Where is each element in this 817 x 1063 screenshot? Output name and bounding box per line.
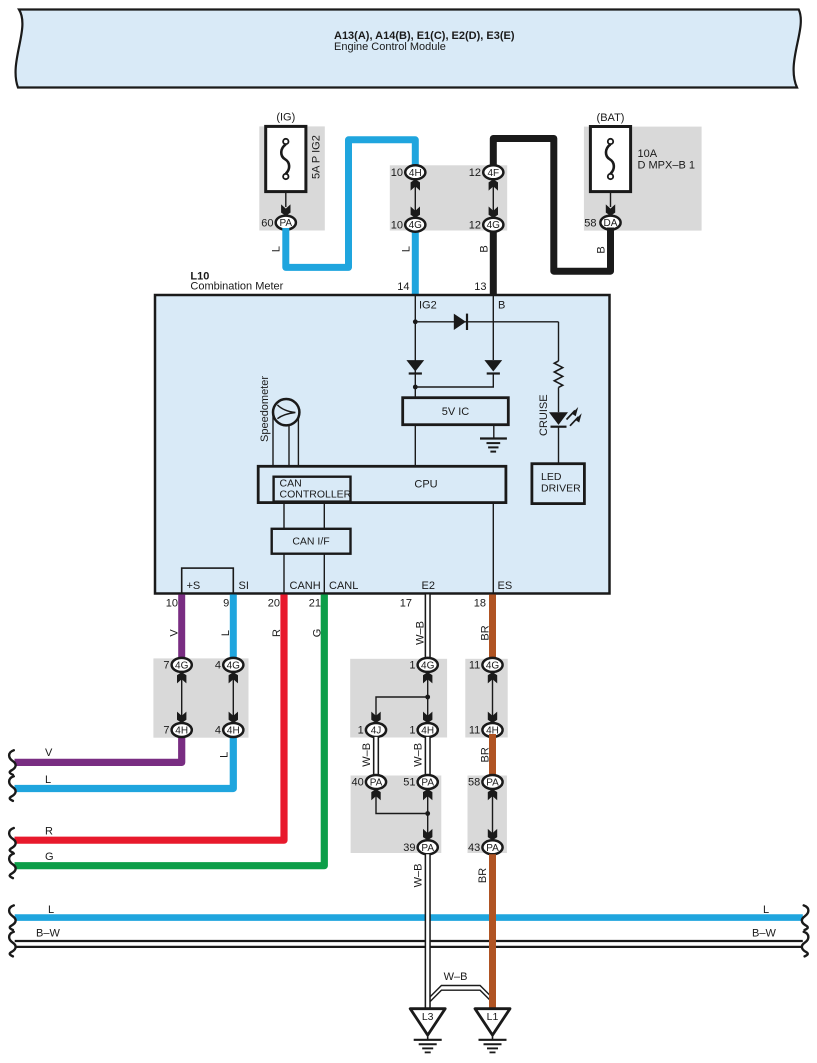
svg-text:51: 51 [403,777,415,789]
svg-text:13: 13 [474,281,486,293]
svg-text:R: R [45,826,53,838]
svg-text:CAN I/F: CAN I/F [292,536,329,548]
wire L (blue) 4H to left edge [15,734,234,789]
svg-text:PA: PA [421,778,434,789]
connector PA pin 60 [276,216,296,230]
wire CANL internal [323,554,325,593]
svg-text:4G: 4G [227,660,241,671]
wire B (black) 4F to DA58 [493,139,610,272]
IC 5V IC [403,398,509,425]
wire 5V IC to CPU [414,425,416,467]
svg-text:B: B [498,300,505,312]
LED CRUISE indicator [549,407,582,427]
connector junction 4F-4G [489,179,498,218]
svg-text:4H: 4H [409,168,422,179]
ground L3 [410,1009,445,1053]
connector arrow into DA [606,204,615,215]
connector PA pin 40 [366,775,386,789]
wire B (black) 4G to meter pin 13 [490,229,497,297]
svg-text:IG2: IG2 [419,300,437,312]
svg-text:4H: 4H [227,726,240,737]
wire L (blue) pin9 to 4G [230,595,237,662]
wire cruise column upper [558,322,560,361]
wire W-B branch to L1 [430,986,492,1003]
svg-text:DRIVER: DRIVER [541,483,581,495]
svg-text:CONTROLLER: CONTROLLER [280,489,352,501]
wire V (purple) 4H to left edge [15,734,182,762]
connector PA pin 58 [482,775,502,789]
connector 4G pin 11 [482,658,502,672]
diode D3 (B, down) [484,360,502,373]
wire B-W bus (double) [15,941,803,947]
svg-text:W–B: W–B [444,971,468,983]
svg-text:7: 7 [163,725,169,737]
connector panel 4G to 4H (ES) [465,659,507,738]
svg-text:20: 20 [268,598,280,610]
svg-text:Combination Meter: Combination Meter [190,281,283,293]
svg-text:4G: 4G [487,220,501,231]
svg-text:18: 18 [474,598,486,610]
svg-text:PA: PA [486,843,499,854]
svg-text:B–W: B–W [36,928,60,940]
wire fuse BAT to DA [610,192,612,207]
svg-text:R: R [271,629,283,637]
svg-text:L3: L3 [422,1011,434,1023]
connector PA pin 39 [418,840,438,854]
diode D1 (series, right) [454,314,467,330]
connector junction 4G-4H (ES) [488,672,497,723]
connector 4H pin 4 [223,723,243,737]
svg-text:5V IC: 5V IC [442,406,470,418]
connector 4G pin 12 [483,218,503,232]
connector panel PA group (E2) [351,776,442,854]
wires CAN CONTROLLER to CAN I/F [283,502,285,529]
svg-text:11: 11 [469,725,480,737]
resistor R1 [554,361,562,387]
wire IG2 to cruise column [415,321,558,323]
svg-text:4: 4 [215,725,221,737]
connector 4J pin 1 [366,723,386,737]
connector panel 4G to 4J/4H (E2) [350,659,447,738]
connector 4G pin 10 [405,218,425,232]
svg-text:V: V [169,629,181,637]
svg-text:Speedometer: Speedometer [259,376,271,442]
connector panel IG fuse panel [259,126,325,230]
wire break L [9,776,16,801]
svg-text:G: G [45,851,54,863]
svg-text:17: 17 [400,598,412,610]
wire resistor to LED [558,387,560,412]
IC CPU [258,466,506,502]
svg-text:4H: 4H [421,726,434,737]
wire break V [9,750,16,775]
svg-text:5A P IG2: 5A P IG2 [311,135,323,179]
wire BR 4H to PA58 [489,734,496,777]
wire CANH internal [283,554,285,593]
connector junction 4G-4H (L) [229,672,238,723]
ground (internal) [480,425,507,452]
connector 4G pin 1 [418,658,438,672]
svg-text:43: 43 [468,842,480,854]
connector junction PA58 to PA43 [488,789,497,840]
svg-text:12: 12 [469,167,481,179]
connector 4H pin 10 [405,165,425,179]
svg-text:W–B: W–B [413,743,425,767]
svg-text:W–B: W–B [415,621,427,645]
wire V (purple) pin10 to 4G [178,595,185,662]
fuse 10A D MPX-B 1 [590,127,630,192]
wire break B-W bus left [9,932,16,957]
wire W-B pin17 to 4G [425,595,431,660]
svg-text:4: 4 [215,660,221,672]
svg-text:W–B: W–B [361,743,373,767]
svg-text:1: 1 [409,725,415,737]
svg-text:L: L [220,630,232,636]
svg-text:V: V [45,747,53,759]
wire B diode to junction [415,374,493,388]
svg-text:BR: BR [480,747,492,762]
svg-text:14: 14 [397,281,409,293]
svg-text:10: 10 [166,598,178,610]
svg-text:G: G [311,629,323,638]
connector arrow into PA [281,204,290,215]
connector junction 4G-4H (V) [177,672,186,723]
svg-text:L: L [763,904,769,916]
connector PA pin 43 [482,840,502,854]
connector junction PA40/PA51 to PA39 [371,789,432,840]
svg-text:CANH: CANH [290,580,321,592]
svg-text:SI: SI [239,580,249,592]
wire L (blue) from PA60 to connector 4H [286,140,416,268]
svg-text:PA: PA [486,778,499,789]
svg-text:ES: ES [498,580,513,592]
svg-text:39: 39 [403,842,415,854]
svg-text:4G: 4G [175,660,189,671]
svg-text:60: 60 [261,217,273,229]
svg-text:DA: DA [604,218,618,229]
node Engine Control Module banner [16,10,801,88]
wire break G [9,854,16,879]
svg-text:LED: LED [541,471,562,483]
wire BR pin18 to 4G [489,595,496,662]
connector panel BAT fuse panel [584,127,702,231]
svg-text:Engine Control Module: Engine Control Module [334,41,446,53]
wire B internal [492,296,494,360]
wire W-B 4J to PA40 [373,737,379,776]
svg-text:BR: BR [477,868,489,883]
wire BR PA43 to ground L1 [489,854,496,1008]
diode D2 (IG2, down) [406,360,424,373]
node PA branch junction [425,811,430,816]
svg-text:L: L [45,774,51,786]
wires speedometer to CPU [273,412,298,466]
svg-text:(BAT): (BAT) [597,112,625,124]
wire R (red) pin20 to left edge [15,595,285,841]
svg-text:4F: 4F [487,168,499,179]
node E2 branch junction [425,695,430,700]
wire break B-W bus right [802,932,809,957]
node IG2 junction [413,319,418,324]
wire IG2 internal [414,296,416,398]
wire LED to LED DRIVER [558,427,560,464]
connector DA pin 58 [600,216,620,230]
wire G (green) pin21 to left edge [15,595,325,866]
svg-text:(IG): (IG) [276,112,295,124]
wire W-B 4H to PA51 [425,737,431,776]
svg-text:BR: BR [480,625,492,640]
IC LED DRIVER [532,464,585,504]
svg-text:B: B [479,245,491,252]
wire L (blue) 4G to meter pin 14 [412,229,419,297]
connector panel 4G/4H left pair [153,658,248,737]
connector panel PA group (ES) [468,776,507,854]
connector 4H pin 7 [172,723,192,737]
svg-text:7: 7 [163,660,169,672]
connector block +S [182,568,234,593]
svg-text:10: 10 [391,167,403,179]
IC CAN I/F [272,529,351,554]
ground L1 [475,1009,510,1053]
svg-text:58: 58 [584,217,596,229]
svg-text:12: 12 [469,219,481,231]
svg-text:PA: PA [370,778,383,789]
svg-text:58: 58 [468,777,480,789]
connector junction 4H-4G [411,179,420,218]
svg-text:4G: 4G [486,660,500,671]
svg-text:CANL: CANL [329,580,358,592]
svg-text:L: L [401,246,413,252]
IC CAN CONTROLLER [274,477,352,502]
svg-text:21: 21 [309,598,321,610]
connector 4G pin 4 [223,658,243,672]
connector junction 4G to 4J/4H [371,672,432,723]
wire break R [9,828,16,853]
svg-text:B–W: B–W [752,928,776,940]
wire ES internal [492,503,494,593]
wire fuse IG to PA [285,192,287,207]
wire W-B PA39 to ground L3 [425,854,431,1008]
combination meter L10 box [155,295,610,594]
svg-text:D MPX–B 1: D MPX–B 1 [638,160,695,172]
svg-text:11: 11 [469,660,480,672]
svg-text:B: B [596,246,608,253]
connector panel 4H/4F to 4G [390,165,507,230]
svg-text:1: 1 [409,660,415,672]
svg-text:4J: 4J [371,726,382,737]
svg-text:L: L [48,904,54,916]
svg-text:L1: L1 [487,1011,499,1023]
svg-text:W–B: W–B [413,864,425,888]
svg-text:L: L [271,246,283,252]
svg-text:CRUISE: CRUISE [538,394,550,436]
connector PA pin 51 [418,775,438,789]
wire break L bus left [9,905,16,930]
svg-text:1: 1 [358,725,364,737]
svg-text:4G: 4G [409,220,423,231]
svg-text:PA: PA [421,843,434,854]
wire L bus (blue) [15,914,803,921]
svg-text:9: 9 [223,598,229,610]
connector 4H pin 11 [482,723,502,737]
connector 4G pin 7 [172,658,192,672]
svg-text:+S: +S [187,580,201,592]
svg-text:4H: 4H [175,726,188,737]
svg-text:CPU: CPU [414,479,437,491]
svg-text:E2: E2 [422,580,435,592]
connector 4H pin 1 [418,723,438,737]
wire break L bus right [802,905,809,930]
speedometer gauge [273,399,299,425]
svg-text:4G: 4G [421,660,435,671]
svg-text:PA: PA [279,218,292,229]
svg-text:L: L [219,752,231,758]
fuse 5A P IG2 [266,126,306,191]
node diode junction [413,385,418,390]
svg-text:40: 40 [352,777,364,789]
svg-text:10A: 10A [638,148,658,160]
connector 4F pin 12 [483,165,503,179]
svg-text:10: 10 [391,219,403,231]
